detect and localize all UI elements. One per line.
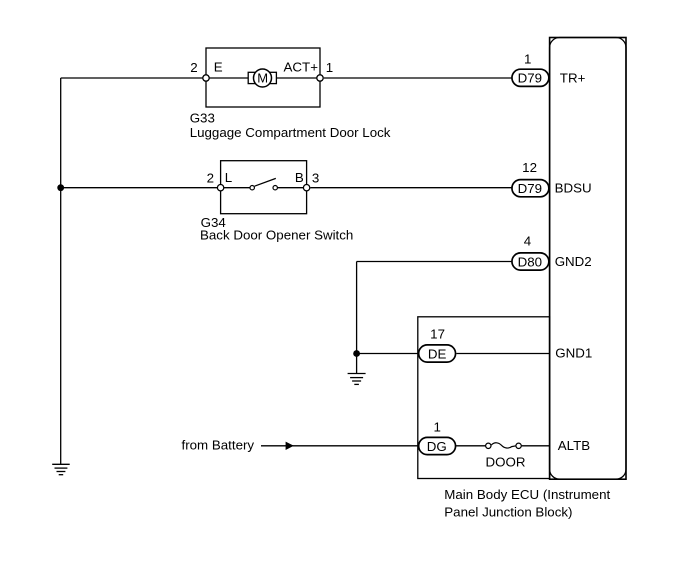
arrowhead on battery feed bbox=[286, 442, 294, 450]
terminal: G33 pin 1 (ACT+) bbox=[317, 75, 323, 81]
connector D79 (pin 12, BDSU) bbox=[512, 180, 549, 197]
svg-text:D79: D79 bbox=[518, 181, 542, 196]
svg-text:B: B bbox=[295, 170, 304, 185]
connector D79 (pin 1, TR+) bbox=[512, 69, 549, 86]
switch contact right bbox=[273, 186, 277, 190]
wire: connector D80 to ground drop bbox=[357, 261, 512, 263]
motor M1: circle with M bbox=[254, 69, 272, 87]
svg-text:Back Door Opener Switch: Back Door Opener Switch bbox=[200, 227, 353, 242]
svg-text:12: 12 bbox=[522, 160, 537, 175]
svg-text:ALTB: ALTB bbox=[558, 438, 590, 453]
wire: G34 pin 3 to connector D79 pin 12 bbox=[310, 187, 511, 189]
wire: DG to fuse DOOR bbox=[456, 445, 486, 447]
terminal: G34 pin 3 (B) bbox=[303, 185, 309, 191]
connector DE (pin 17, GND1) bbox=[419, 345, 456, 362]
wire: DE to ECU GND1 bbox=[456, 353, 549, 355]
wire: G33 pin 1 to connector D79 pin 1 bbox=[324, 77, 512, 79]
wire: vertical ground drop bbox=[356, 262, 358, 374]
wire: inside G34 from pin L to contact and contact to pin B bbox=[221, 187, 253, 189]
connector DG (pin 1, ALTB) bbox=[419, 437, 456, 454]
ECU block: inner rounded rectangle bbox=[550, 38, 626, 480]
wire: horizontal from left rail to G34 pin 2 bbox=[61, 187, 221, 189]
svg-text:17: 17 bbox=[430, 326, 445, 341]
svg-text:D80: D80 bbox=[518, 254, 542, 269]
svg-text:TR+: TR+ bbox=[560, 71, 586, 86]
svg-text:G33: G33 bbox=[190, 110, 215, 125]
svg-text:1: 1 bbox=[433, 420, 440, 435]
svg-text:Main Body ECU (Instrument: Main Body ECU (Instrument bbox=[444, 487, 610, 502]
junction: ground drop meets GND1 wire bbox=[353, 350, 360, 357]
svg-text:GND2: GND2 bbox=[555, 254, 592, 269]
svg-text:DG: DG bbox=[427, 439, 447, 454]
switch arm (open) bbox=[255, 178, 276, 186]
svg-text:L: L bbox=[225, 170, 232, 185]
svg-text:GND1: GND1 bbox=[555, 346, 592, 361]
svg-text:2: 2 bbox=[207, 171, 214, 186]
wire: fuse to ECU ALTB bbox=[522, 445, 550, 447]
connector D80 (pin 4, GND2) bbox=[512, 253, 549, 270]
svg-text:3: 3 bbox=[312, 171, 319, 186]
motor M1: housing rectangle bbox=[248, 72, 276, 83]
svg-text:Luggage Compartment Door Lock: Luggage Compartment Door Lock bbox=[190, 125, 391, 140]
svg-text:DE: DE bbox=[428, 346, 447, 361]
fuse DOOR: right terminal circle bbox=[516, 443, 521, 448]
svg-text:DOOR: DOOR bbox=[486, 454, 526, 469]
svg-text:ACT+: ACT+ bbox=[284, 59, 319, 74]
wire: left rail vertical (node from G33 pin2 / G34 pin2 to ground) bbox=[60, 78, 62, 464]
wire: from Battery to connector DG bbox=[261, 445, 418, 447]
junction: left rail to G34 branch bbox=[57, 184, 64, 191]
svg-text:Panel Junction Block): Panel Junction Block) bbox=[444, 505, 572, 520]
svg-text:4: 4 bbox=[524, 234, 532, 249]
wire: junction to connector DE bbox=[357, 353, 418, 355]
svg-text:2: 2 bbox=[190, 60, 197, 75]
inner block of Main Body ECU (junction block sub-box) bbox=[418, 317, 550, 479]
fuse DOOR: element squiggle bbox=[491, 443, 516, 448]
ECU block: Main Body ECU outer rectangle bbox=[550, 38, 626, 480]
fuse DOOR: left terminal circle bbox=[486, 443, 491, 448]
terminal: G34 pin 2 (L) bbox=[217, 185, 223, 191]
svg-text:BDSU: BDSU bbox=[555, 181, 592, 196]
svg-text:1: 1 bbox=[524, 52, 531, 67]
svg-text:1: 1 bbox=[326, 60, 333, 75]
terminal: G33 pin 2 (E) bbox=[203, 75, 209, 81]
wire: horizontal from left rail to G33 pin 2 bbox=[61, 77, 206, 79]
ground: middle body ground symbol bbox=[348, 374, 366, 385]
wire: inside G33 from pin E to motor and motor to pin ACT+ bbox=[206, 77, 320, 79]
switch contact left bbox=[250, 186, 254, 190]
svg-text:M: M bbox=[257, 71, 268, 86]
svg-text:D79: D79 bbox=[518, 71, 542, 86]
svg-text:from Battery: from Battery bbox=[182, 437, 255, 452]
ground: left body ground symbol bbox=[52, 464, 69, 474]
svg-text:E: E bbox=[214, 59, 223, 74]
component G34 box: Back Door Opener Switch bbox=[221, 161, 307, 214]
component G33 box: Luggage Compartment Door Lock bbox=[206, 48, 320, 107]
